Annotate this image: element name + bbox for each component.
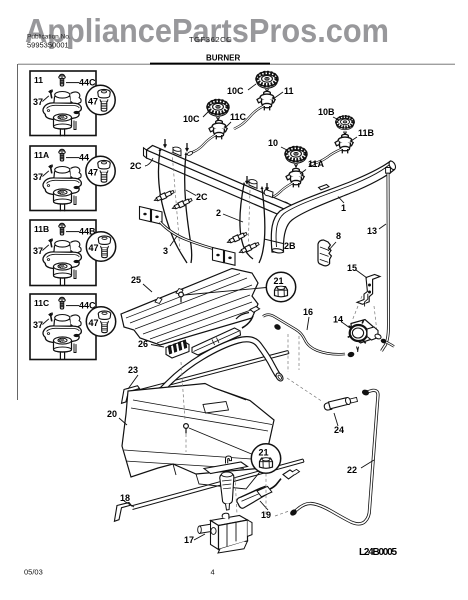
circle 47 of box 11C xyxy=(86,307,115,336)
panel 25 (upper baffle, pleated) xyxy=(121,269,258,346)
mounting boss on manifold 1 xyxy=(319,185,330,190)
burner head 10C (second) xyxy=(207,100,229,116)
valve 11 xyxy=(257,91,275,110)
svg-text:11A: 11A xyxy=(308,159,325,169)
svg-text:25: 25 xyxy=(131,275,141,285)
svg-text:2C: 2C xyxy=(196,192,208,202)
arrow between head and valve 11C xyxy=(216,116,219,120)
leader from circle 21 to screw on panel 25 xyxy=(184,288,266,296)
dashed alignment 15 to 14 xyxy=(352,296,362,321)
box 11B valve assembly xyxy=(42,223,81,285)
svg-text:26: 26 xyxy=(138,339,148,349)
dashed leader from 19 to tube 22 nut xyxy=(275,511,289,516)
igniter 19 xyxy=(237,469,300,508)
svg-text:2: 2 xyxy=(216,208,221,218)
svg-text:24: 24 xyxy=(334,425,344,435)
arrow between head 10C and valve 11 xyxy=(265,88,268,92)
svg-text:5995350001: 5995350001 xyxy=(27,41,69,50)
svg-text:4: 4 xyxy=(211,568,215,577)
igniter wire D xyxy=(259,188,265,263)
svg-text:14: 14 xyxy=(333,315,343,325)
alignment dashed line right xyxy=(248,190,250,252)
svg-text:21: 21 xyxy=(274,276,284,286)
box 11A valve assembly xyxy=(42,149,81,211)
svg-text:8: 8 xyxy=(336,231,341,241)
valve 11C xyxy=(209,120,227,139)
rail 23 with foot xyxy=(122,351,290,404)
arrow between head 10B and valve 11B xyxy=(343,131,346,135)
box 11C frame xyxy=(30,294,96,360)
panel 20 (lower baffle) xyxy=(122,384,274,490)
svg-text:37: 37 xyxy=(33,320,43,330)
wire tube from valve 11B down-left xyxy=(314,149,342,164)
manifold pipe 1 (fat front manifold bar) xyxy=(271,160,397,254)
igniter wire C xyxy=(240,184,253,259)
tube 16 xyxy=(263,315,345,355)
box 11A frame xyxy=(30,146,96,211)
tube 3 xyxy=(160,222,222,251)
svg-text:11B: 11B xyxy=(358,128,375,138)
screw on panel 25 xyxy=(179,292,184,297)
svg-text:TGF362CC: TGF362CC xyxy=(189,35,232,44)
svg-text:10C: 10C xyxy=(227,86,244,96)
wire tube from valve 11 to manifold xyxy=(234,106,264,129)
elbow fitting 24 xyxy=(324,397,357,410)
svg-text:11B: 11B xyxy=(34,224,49,234)
svg-text:47: 47 xyxy=(88,168,98,178)
bolt on panel 20 xyxy=(184,424,189,429)
box 11 frame xyxy=(30,71,96,136)
svg-text:11: 11 xyxy=(34,75,43,85)
wire tube from valve 11C down-left xyxy=(192,135,216,153)
rail 18 with foot xyxy=(114,459,304,521)
pressure regulator 14 xyxy=(348,320,382,352)
svg-text:47: 47 xyxy=(89,318,99,328)
bracket 15 xyxy=(357,275,380,307)
circle 47 of box 11A xyxy=(86,156,115,185)
tube 3 right bracket xyxy=(213,248,236,266)
svg-text:11A: 11A xyxy=(34,150,49,160)
orifice holder on bar 2 (left) xyxy=(172,146,181,156)
box 11C valve assembly xyxy=(42,297,81,359)
circle 47 of box 11B xyxy=(86,232,115,261)
circle 47 of box 11 xyxy=(86,85,115,114)
svg-text:47: 47 xyxy=(88,97,98,107)
dashed box near 16 xyxy=(288,334,299,372)
igniter bar 26 xyxy=(166,307,260,359)
dashed alignment hood to valve 17 xyxy=(235,477,237,514)
tube 22 (large loop) xyxy=(296,390,378,524)
svg-text:44: 44 xyxy=(79,153,89,163)
svg-text:23: 23 xyxy=(128,365,138,375)
svg-text:21: 21 xyxy=(259,448,269,458)
orifice hood bracket xyxy=(204,456,248,510)
svg-text:10B: 10B xyxy=(318,107,335,117)
svg-text:05/03: 05/03 xyxy=(24,568,43,577)
valve 11A xyxy=(286,168,304,187)
box 11B frame xyxy=(30,220,96,286)
svg-text:11: 11 xyxy=(284,86,294,96)
wire tube from valve 11A down-left xyxy=(270,183,293,198)
tube 22 nuts xyxy=(289,508,298,517)
clip on manifold pipe 1 xyxy=(264,190,273,198)
svg-text:37: 37 xyxy=(33,246,43,256)
svg-text:10: 10 xyxy=(268,138,278,148)
svg-text:44C: 44C xyxy=(79,78,96,88)
orifice fitting pair 2C exploded xyxy=(153,189,174,203)
dashed leader to 24 xyxy=(287,378,323,402)
svg-text:17: 17 xyxy=(184,535,194,545)
igniter wire B xyxy=(185,154,192,263)
pipe 13 (oven supply pipe, vertical) xyxy=(382,173,389,351)
arrow between head 10 and valve 11A xyxy=(294,163,297,167)
svg-text:L24B0005: L24B0005 xyxy=(359,547,397,558)
valve 11B xyxy=(335,134,353,153)
oven burner supply tube (thick, part of 23) xyxy=(152,339,278,401)
alignment dashed line left xyxy=(172,152,180,250)
leader from bolt to circle 21 lower xyxy=(189,428,252,454)
tube 3 left bracket xyxy=(140,207,163,225)
svg-text:2C: 2C xyxy=(130,161,142,171)
box 11 valve assembly xyxy=(42,74,81,136)
burner head 10B xyxy=(336,116,354,130)
orifice holder on bar 2 (right) xyxy=(248,179,257,189)
svg-text:3: 3 xyxy=(163,246,168,256)
igniter wire A xyxy=(158,150,187,263)
orifice fitting pair 2B exploded xyxy=(226,231,247,245)
tube 16 nut fitting xyxy=(273,323,281,331)
burner head 10C (top) xyxy=(256,72,278,88)
svg-text:Publication No.: Publication No. xyxy=(27,34,71,41)
svg-text:37: 37 xyxy=(33,97,43,107)
svg-text:11C: 11C xyxy=(230,112,247,122)
oval pad on manifold under 11A tube xyxy=(280,201,290,208)
bracket 8 xyxy=(318,240,331,266)
header rule thin xyxy=(18,63,455,65)
regulator outlet nut xyxy=(380,338,387,344)
svg-text:22: 22 xyxy=(347,465,357,475)
svg-text:47: 47 xyxy=(89,243,99,253)
circle 21 lower xyxy=(251,444,280,473)
header rule bold under title xyxy=(150,63,270,65)
safety valve 17 xyxy=(198,513,252,553)
manifold bar 2 (rear manifold, 3D bar) xyxy=(144,146,297,220)
screw above bar 2 right pair xyxy=(246,176,249,183)
screw above bar 2 left pair xyxy=(164,139,167,147)
svg-text:16: 16 xyxy=(303,307,313,317)
svg-text:13: 13 xyxy=(367,226,377,236)
left page border line xyxy=(17,64,19,400)
burner head 10 xyxy=(285,147,307,163)
svg-text:10C: 10C xyxy=(183,114,200,124)
svg-text:1: 1 xyxy=(341,203,346,213)
dashed alignment bolt down xyxy=(185,434,187,452)
svg-text:15: 15 xyxy=(347,263,357,273)
svg-text:2B: 2B xyxy=(284,241,296,251)
circle 21 upper xyxy=(266,272,295,301)
svg-text:20: 20 xyxy=(107,409,117,419)
svg-text:11C: 11C xyxy=(34,298,49,308)
svg-text:BURNER: BURNER xyxy=(206,54,240,63)
svg-text:37: 37 xyxy=(33,172,43,182)
